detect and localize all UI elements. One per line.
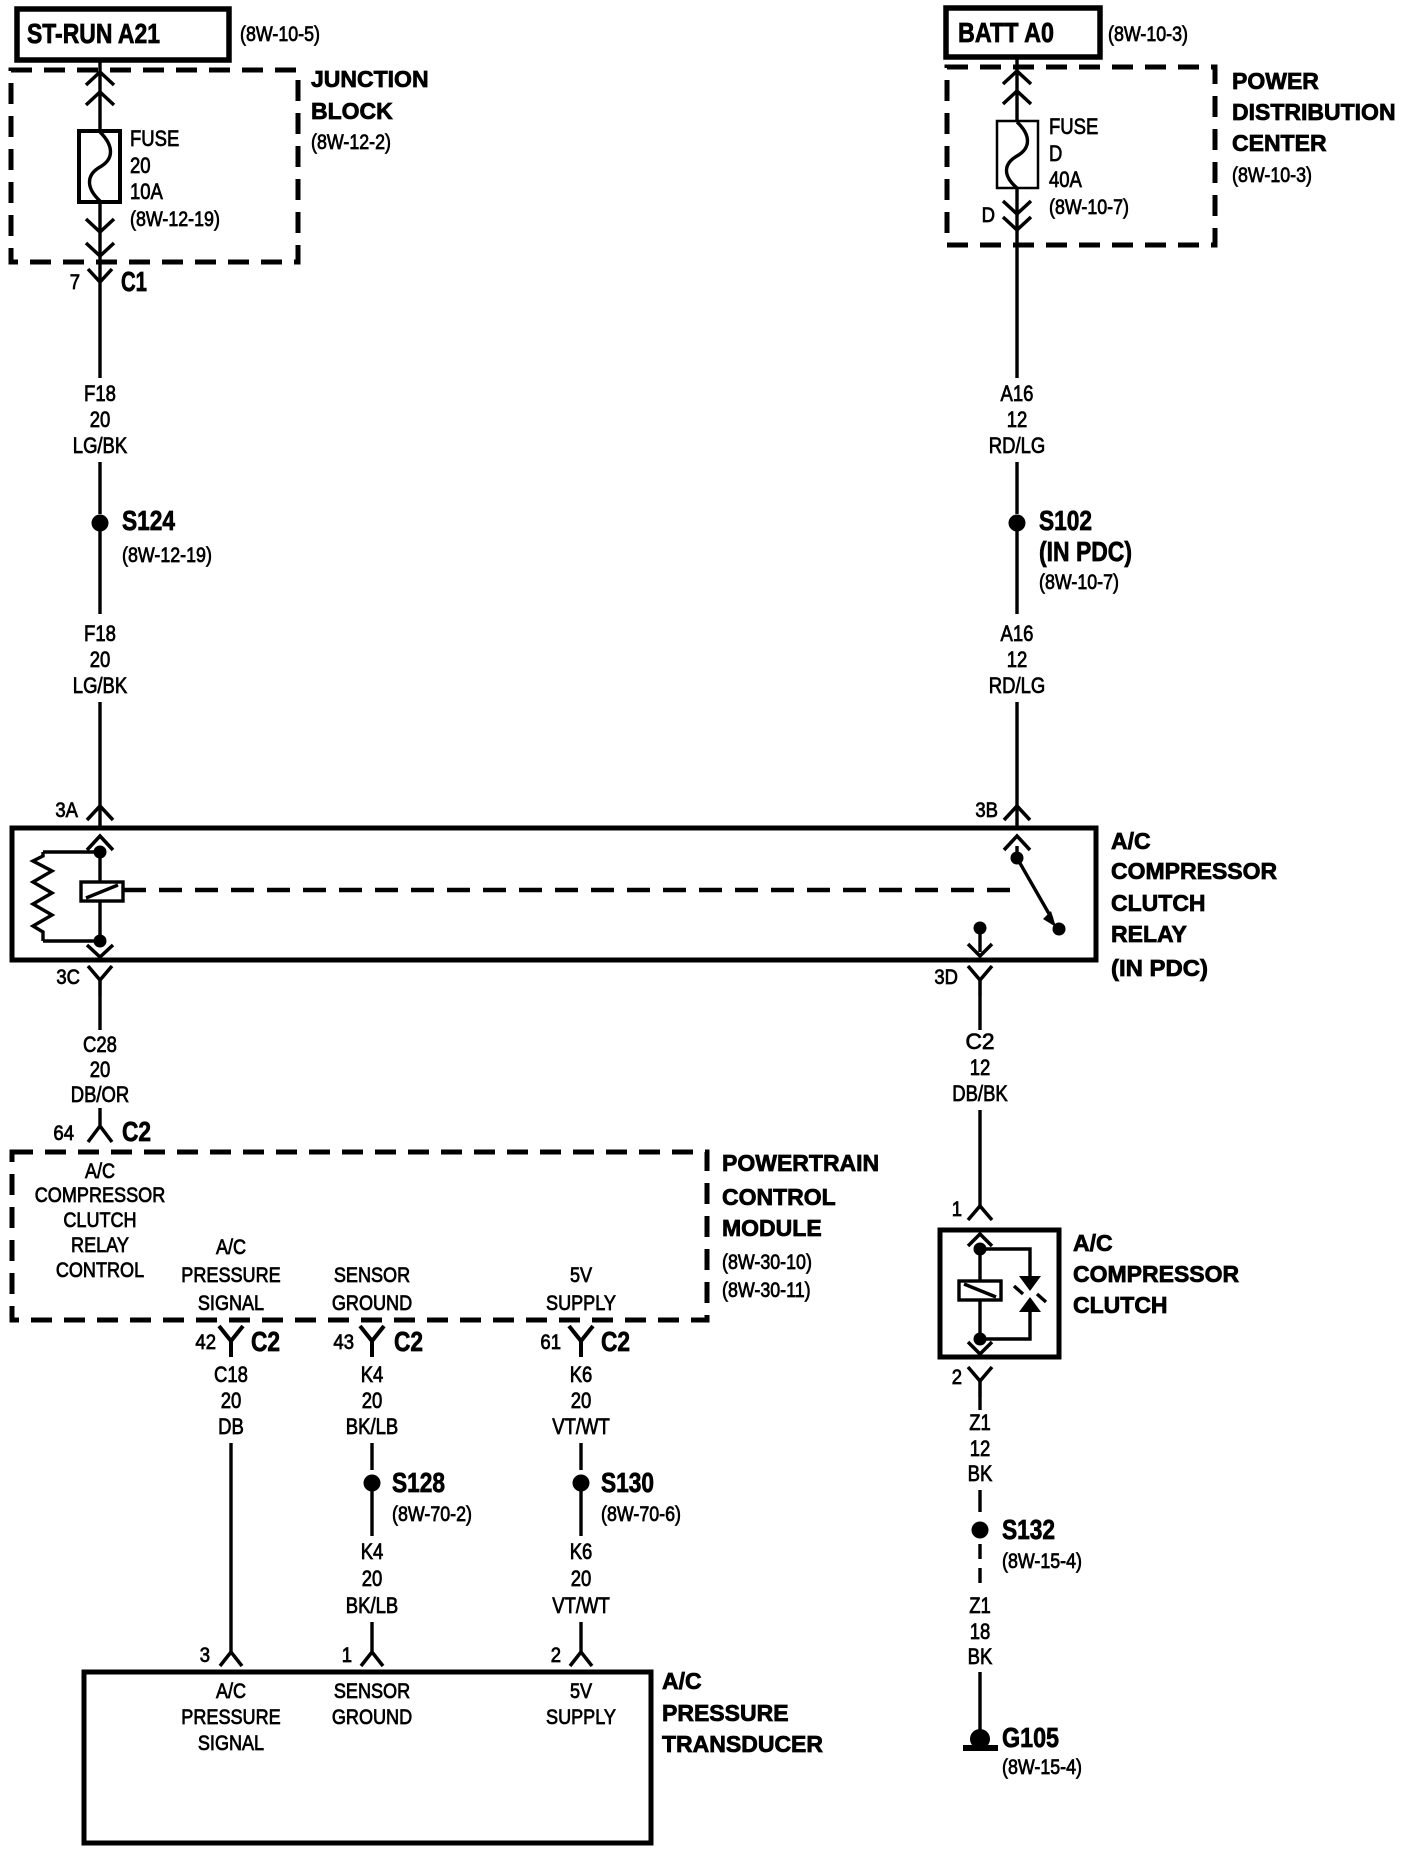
svg-text:64: 64 (53, 1122, 74, 1145)
connector 3D symbol (968, 966, 992, 996)
wire relay coil branch (vertical) (98, 846, 101, 941)
svg-text:18: 18 (970, 1619, 991, 1644)
splice S124 (92, 515, 109, 532)
svg-text:20: 20 (362, 1566, 383, 1591)
wire DB/BK to clutch pin 1 (978, 1110, 981, 1206)
svg-text:7: 7 (70, 271, 80, 294)
wire ST-RUN A21 to junction block (98, 58, 101, 131)
svg-text:ST-RUN A21: ST-RUN A21 (27, 18, 160, 49)
svg-text:C2: C2 (251, 1326, 280, 1357)
wire S132 down (dashed) (978, 1544, 981, 1586)
svg-text:D: D (1049, 141, 1062, 166)
svg-text:(8W-10-7): (8W-10-7) (1039, 571, 1119, 594)
svg-text:S132: S132 (1002, 1514, 1055, 1545)
transducer internal label: 5v supply (546, 1680, 616, 1729)
svg-text:C2: C2 (601, 1326, 630, 1357)
svg-text:(8W-30-11): (8W-30-11) (722, 1279, 811, 1302)
wire to resistor top (43, 850, 100, 853)
svg-text:POWER: POWER (1232, 68, 1319, 94)
wire label K4 20 BK/LB (lower) (346, 1539, 398, 1618)
svg-text:S128: S128 (392, 1467, 445, 1498)
svg-text:G105: G105 (1002, 1722, 1059, 1753)
svg-text:PRESSURE: PRESSURE (181, 1706, 280, 1729)
svg-text:S130: S130 (601, 1467, 654, 1498)
svg-text:BK/LB: BK/LB (346, 1414, 398, 1439)
svg-text:BK/LB: BK/LB (346, 1593, 398, 1618)
svg-text:COMPRESSOR: COMPRESSOR (1073, 1261, 1240, 1287)
svg-text:(8W-15-4): (8W-15-4) (1002, 1550, 1082, 1573)
connector symbol at transducer pin 2 (570, 1652, 592, 1666)
wire clutch coil vertical (978, 1243, 981, 1339)
svg-text:A/C: A/C (1111, 828, 1151, 854)
svg-text:D: D (982, 204, 995, 227)
svg-text:RELAY: RELAY (1111, 921, 1187, 947)
PCM internal label: sensor ground (332, 1264, 412, 1315)
svg-text:DISTRIBUTION: DISTRIBUTION (1232, 99, 1396, 125)
svg-text:1: 1 (952, 1198, 962, 1221)
svg-text:CLUTCH: CLUTCH (1073, 1292, 1168, 1318)
connector C2 pin 43 symbol (360, 1326, 384, 1357)
svg-text:DB/OR: DB/OR (71, 1082, 130, 1107)
diode (clutch suppression, bidirectional) (1014, 1276, 1046, 1312)
a/c compressor clutch box (940, 1230, 1059, 1357)
svg-text:20: 20 (90, 407, 111, 432)
svg-text:LG/BK: LG/BK (73, 673, 128, 698)
svg-text:BATT A0: BATT A0 (958, 17, 1054, 48)
svg-text:CLUTCH: CLUTCH (1111, 890, 1206, 916)
wire label C2 12 DB/BK (952, 1029, 1008, 1106)
svg-text:2: 2 (551, 1644, 561, 1667)
wire switch output down to 3D (978, 928, 981, 952)
svg-text:BK: BK (968, 1644, 993, 1669)
svg-text:61: 61 (540, 1331, 561, 1354)
wire label K6 20 VT/WT (lower) (552, 1539, 610, 1618)
svg-text:(8W-10-3): (8W-10-3) (1232, 164, 1312, 187)
svg-text:42: 42 (195, 1331, 216, 1354)
power distribution center dashed box (947, 67, 1215, 245)
svg-text:5V: 5V (570, 1680, 592, 1703)
svg-text:PRESSURE: PRESSURE (662, 1700, 789, 1726)
ground G105 symbol (963, 1729, 998, 1751)
wire label F18 20 LG/BK (lower) (73, 621, 128, 698)
node ST-RUN A21 (fused ignition feed) (17, 9, 229, 60)
wire DB/OR to connector 64 (98, 1108, 101, 1126)
wire K4 to splice S128 (370, 1443, 373, 1470)
PCM name label (722, 1150, 879, 1302)
wire clutch to Z1 label (978, 1397, 981, 1410)
resistor (relay coil suppression) zigzag (33, 852, 52, 941)
splice S128 (364, 1475, 381, 1492)
connector C2 pin 64 symbol (88, 1126, 112, 1142)
svg-text:12: 12 (1007, 647, 1028, 672)
dashed relay actuation line (123, 888, 1012, 893)
svg-text:SUPPLY: SUPPLY (546, 1706, 616, 1729)
connector arrows at junction block entry (86, 72, 114, 105)
svg-text:3B: 3B (975, 799, 998, 822)
svg-text:F18: F18 (84, 621, 116, 646)
svg-text:C2: C2 (966, 1029, 995, 1054)
node switch NO contact (1053, 923, 1066, 936)
svg-text:PRESSURE: PRESSURE (181, 1264, 280, 1287)
wire BATT A0 to PDC (1015, 56, 1018, 121)
svg-text:JUNCTION: JUNCTION (311, 66, 429, 92)
svg-text:20: 20 (90, 647, 111, 672)
svg-text:C1: C1 (121, 266, 147, 297)
svg-text:(8W-12-2): (8W-12-2) (311, 131, 391, 154)
connector arrow inside relay at 3A (87, 836, 113, 850)
svg-text:C2: C2 (122, 1116, 151, 1147)
node BATT A0 (battery feed) (946, 8, 1100, 57)
svg-text:12: 12 (1007, 407, 1028, 432)
svg-text:(8W-12-19): (8W-12-19) (130, 208, 220, 231)
connector symbol at transducer pin 3 (220, 1652, 242, 1666)
wire label Z1 12 BK (968, 1410, 993, 1486)
powertrain control module dashed box (12, 1152, 707, 1320)
svg-text:A/C: A/C (1073, 1230, 1113, 1256)
svg-text:(IN PDC): (IN PDC) (1111, 955, 1208, 981)
node switch output (974, 922, 987, 935)
svg-text:(8W-15-4): (8W-15-4) (1002, 1756, 1082, 1779)
a/c pressure transducer box (84, 1672, 651, 1843)
wire label C28 20 DB/OR (71, 1032, 130, 1107)
svg-text:VT/WT: VT/WT (552, 1593, 610, 1618)
svg-text:LG/BK: LG/BK (73, 433, 128, 458)
svg-text:(8W-70-6): (8W-70-6) (601, 1503, 681, 1526)
svg-text:K4: K4 (361, 1362, 384, 1387)
svg-text:A/C: A/C (216, 1680, 246, 1703)
svg-text:GROUND: GROUND (332, 1706, 412, 1729)
fuse 20 (10A) in junction block (79, 131, 120, 202)
svg-text:A16: A16 (1001, 381, 1034, 406)
svg-text:3D: 3D (934, 966, 958, 989)
svg-text:(8W-10-5): (8W-10-5) (240, 23, 320, 46)
connector arrows at junction block exit (86, 219, 114, 256)
splice S132 (972, 1522, 989, 1539)
svg-text:CONTROL: CONTROL (56, 1259, 144, 1282)
svg-text:20: 20 (130, 153, 151, 178)
svg-text:BLOCK: BLOCK (311, 98, 393, 124)
svg-text:FUSE: FUSE (1049, 114, 1098, 139)
svg-text:RD/LG: RD/LG (989, 673, 1046, 698)
wire label C18 20 DB (214, 1362, 248, 1439)
wire label A16 12 RD/LG (upper) (989, 381, 1046, 458)
svg-text:(8W-30-10): (8W-30-10) (722, 1251, 812, 1274)
svg-text:A/C: A/C (662, 1668, 702, 1694)
wire VT/WT to transducer pin 2 (579, 1622, 582, 1652)
svg-text:(8W-10-3): (8W-10-3) (1108, 23, 1188, 46)
wire BK to ground G105 (978, 1672, 981, 1730)
svg-text:20: 20 (221, 1388, 242, 1413)
transducer name label (662, 1668, 823, 1757)
svg-text:C18: C18 (214, 1362, 248, 1387)
relay K (A/C compressor clutch relay) box (12, 828, 1096, 960)
wire to diode branch top (980, 1249, 1030, 1276)
svg-text:CENTER: CENTER (1232, 130, 1327, 156)
svg-text:POWERTRAIN: POWERTRAIN (722, 1150, 879, 1176)
wire fuse to connector C1 (98, 202, 101, 282)
wire BK to splice S132 (978, 1490, 981, 1512)
node junction (clutch bottom) (974, 1333, 987, 1346)
svg-text:12: 12 (970, 1055, 991, 1080)
wire label A16 12 RD/LG (lower) (989, 621, 1046, 698)
wire label K6 20 VT/WT (upper) (552, 1362, 610, 1439)
connector arrow inside relay at 3C (87, 945, 113, 957)
relay coil symbol (81, 882, 123, 901)
svg-text:3: 3 (200, 1644, 210, 1667)
connector C1 symbol (88, 269, 112, 282)
svg-text:A/C: A/C (216, 1236, 246, 1259)
connector 3C symbol (88, 966, 112, 996)
svg-text:A/C: A/C (85, 1160, 115, 1183)
svg-text:2: 2 (952, 1366, 962, 1389)
svg-text:A16: A16 (1001, 621, 1034, 646)
wire BK/LB to transducer pin 1 (370, 1622, 373, 1652)
wire 3C to PCM (98, 996, 101, 1030)
svg-text:10A: 10A (130, 179, 163, 204)
svg-text:(8W-12-19): (8W-12-19) (122, 544, 212, 567)
svg-text:SENSOR: SENSOR (334, 1264, 410, 1287)
svg-text:COMPRESSOR: COMPRESSOR (35, 1184, 166, 1207)
svg-text:20: 20 (571, 1388, 592, 1413)
wire label Z1 18 BK (968, 1593, 993, 1669)
svg-text:12: 12 (970, 1436, 991, 1461)
svg-text:20: 20 (362, 1388, 383, 1413)
fuse D value labels (1049, 114, 1129, 219)
svg-text:VT/WT: VT/WT (552, 1414, 610, 1439)
connector C2 pin 61 symbol (569, 1326, 593, 1357)
PCM internal label: a/c compressor clutch relay control (35, 1160, 166, 1282)
clutch coil symbol (959, 1281, 1001, 1300)
connector arrow inside clutch top (968, 1234, 992, 1246)
wire S128 down (370, 1491, 373, 1536)
wire resistor bottom to coil (43, 939, 100, 942)
svg-text:FUSE: FUSE (130, 126, 179, 151)
svg-text:MODULE: MODULE (722, 1215, 822, 1241)
svg-text:20: 20 (571, 1566, 592, 1591)
svg-text:RD/LG: RD/LG (989, 433, 1046, 458)
svg-text:5V: 5V (570, 1264, 592, 1287)
wire RD/LG to relay pin 3B (1015, 702, 1018, 826)
connector symbol at clutch pin 2 (968, 1367, 992, 1397)
svg-text:Z1: Z1 (969, 1593, 991, 1618)
junction block dashed box (11, 70, 298, 262)
fuse D (40A) in PDC (997, 121, 1038, 188)
node junction (coil top) (94, 846, 107, 859)
wire LG/BK to relay pin 3A (98, 702, 101, 826)
svg-text:S102: S102 (1039, 505, 1092, 536)
svg-text:RELAY: RELAY (71, 1234, 129, 1257)
wire LG/BK to splice (98, 462, 101, 514)
svg-text:DB/BK: DB/BK (952, 1081, 1008, 1106)
svg-text:40A: 40A (1049, 167, 1082, 192)
connector arrows at PDC exit (1003, 201, 1031, 230)
node switch common (1011, 852, 1024, 865)
svg-text:3A: 3A (55, 799, 78, 822)
relay name label (1111, 828, 1278, 981)
PCM internal label: 5v supply (546, 1264, 616, 1315)
wire S124 down (98, 531, 101, 614)
svg-text:Z1: Z1 (969, 1410, 991, 1435)
splice S102 (1009, 515, 1026, 532)
transducer internal label: sensor ground (332, 1680, 412, 1729)
svg-text:SIGNAL: SIGNAL (198, 1292, 264, 1315)
wire C1 to S124 (98, 298, 101, 378)
wire C18 to transducer pin 3 (229, 1443, 232, 1652)
svg-text:COMPRESSOR: COMPRESSOR (1111, 858, 1278, 884)
svg-text:K6: K6 (570, 1362, 593, 1387)
svg-text:CONTROL: CONTROL (722, 1184, 836, 1210)
svg-text:SENSOR: SENSOR (334, 1680, 410, 1703)
svg-text:TRANSDUCER: TRANSDUCER (662, 1731, 823, 1757)
wire label K4 20 BK/LB (upper) (346, 1362, 398, 1439)
wire diode branch bottom (980, 1312, 1030, 1339)
wire fuse D to PDC exit (1015, 188, 1018, 378)
svg-text:(8W-70-2): (8W-70-2) (392, 1503, 472, 1526)
wire K6 to splice S130 (579, 1443, 582, 1470)
PCM internal label: a/c pressure signal (181, 1236, 280, 1315)
connector symbol at clutch pin 1 (968, 1206, 992, 1220)
svg-text:C2: C2 (394, 1326, 423, 1357)
connector C2 pin 42 symbol (219, 1326, 243, 1357)
svg-text:CLUTCH: CLUTCH (63, 1209, 136, 1232)
svg-text:GROUND: GROUND (332, 1292, 412, 1315)
svg-text:K6: K6 (570, 1539, 593, 1564)
svg-text:S124: S124 (122, 505, 175, 536)
junction block name label (311, 66, 429, 154)
svg-text:K4: K4 (361, 1539, 384, 1564)
connector arrow inside relay at 3D (968, 944, 992, 956)
wire S102 down (1015, 531, 1018, 614)
svg-text:43: 43 (333, 1331, 354, 1354)
connector symbol at transducer pin 1 (361, 1652, 383, 1666)
node junction (coil bottom) (94, 935, 107, 948)
svg-text:20: 20 (90, 1057, 111, 1082)
wire 3D to clutch (978, 996, 981, 1030)
svg-text:BK: BK (968, 1461, 993, 1486)
switch blade (relay contact arm) (1017, 858, 1052, 919)
wire 3B into switch common (1015, 846, 1018, 858)
fuse 20 value labels (130, 126, 220, 231)
wire label F18 20 LG/BK (upper) (73, 381, 128, 458)
svg-text:(8W-10-7): (8W-10-7) (1049, 196, 1129, 219)
svg-text:1: 1 (342, 1644, 352, 1667)
svg-text:C28: C28 (83, 1032, 117, 1057)
connector arrow inside clutch bottom (968, 1342, 992, 1354)
wire S130 down (579, 1491, 582, 1536)
power distribution center name label (1232, 68, 1396, 187)
connector arrow at 3B (1004, 806, 1030, 820)
wire RD/LG to splice S102 (1015, 462, 1018, 514)
svg-text:(IN PDC): (IN PDC) (1039, 536, 1132, 567)
transducer internal label: a/c pressure signal (181, 1680, 280, 1755)
svg-text:3C: 3C (56, 966, 80, 989)
splice S130 (573, 1475, 590, 1492)
connector arrow at 3A (87, 806, 113, 820)
connector arrows at PDC entry (1003, 71, 1031, 104)
svg-text:DB: DB (218, 1414, 244, 1439)
clutch name label (1073, 1230, 1240, 1318)
node junction (clutch top) (974, 1243, 987, 1256)
connector arrow inside relay at 3B (1004, 836, 1030, 850)
svg-text:SIGNAL: SIGNAL (198, 1732, 264, 1755)
svg-text:SUPPLY: SUPPLY (546, 1292, 616, 1315)
svg-text:F18: F18 (84, 381, 116, 406)
